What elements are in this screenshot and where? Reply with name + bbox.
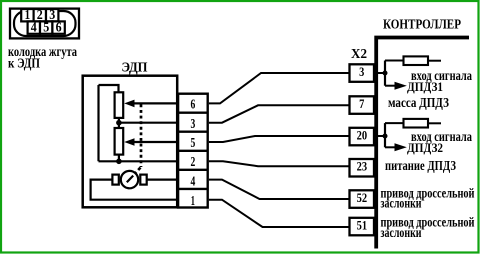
motor brush right — [140, 175, 146, 185]
svg-text:4: 4 — [31, 20, 37, 35]
potentiometer R2 — [115, 128, 124, 155]
svg-text:2: 2 — [37, 7, 43, 22]
connector housing outer rect — [10, 9, 79, 39]
X2 pin box 20 — [350, 128, 375, 146]
harness wire pin3 to X2-7 — [209, 105, 350, 122]
svg-text:1: 1 — [25, 7, 31, 22]
svg-text:20: 20 — [357, 127, 368, 142]
svg-text:ДПДЗ2: ДПДЗ2 — [407, 140, 443, 155]
wire X2-3 into controller — [374, 72, 385, 74]
svg-text:к ЭДП: к ЭДП — [8, 56, 40, 71]
pin cavity 5 — [40, 21, 52, 33]
X2 pin box 52 — [350, 190, 375, 208]
wire: R1 bottom stub — [118, 118, 120, 128]
svg-text:заслонки: заслонки — [381, 195, 422, 210]
mechanical link dashed line — [140, 104, 143, 167]
pin cavity 3 — [46, 9, 58, 21]
X2 pin box 7 — [350, 96, 375, 114]
wire from resistor 1 — [428, 60, 441, 62]
svg-text:4: 4 — [191, 174, 196, 189]
wire: R2 bottom stub — [118, 155, 120, 162]
wire to resistor 2 — [385, 122, 404, 124]
controller boundary line — [376, 38, 469, 249]
svg-text:заслонки: заслонки — [381, 225, 422, 240]
X2 pin box 23 — [350, 159, 375, 177]
harness wire pin1 to X2-51 — [209, 200, 350, 227]
harness wire pin5 to X2-20 — [209, 136, 350, 142]
svg-text:5: 5 — [43, 20, 49, 35]
svg-text:6: 6 — [56, 20, 62, 35]
harness wire pin2 to X2-23 — [209, 161, 350, 166]
resistor 1 — [404, 56, 429, 65]
svg-text:X2: X2 — [351, 47, 367, 62]
pin cavity 1 — [21, 9, 33, 21]
X2 pin box 51 — [350, 218, 375, 236]
wire from resistor 2 — [428, 122, 441, 124]
pin box dividers — [178, 111, 208, 113]
svg-text:6: 6 — [191, 97, 196, 112]
wire: top link to R1 — [99, 85, 119, 92]
wiper arrow 1 to pin 6 — [133, 102, 177, 104]
wire: motor right to pin 4 — [147, 179, 177, 181]
signal arrow DPDZ2 — [385, 146, 397, 148]
pin cavity 6 — [52, 21, 64, 33]
svg-text:5: 5 — [191, 135, 196, 150]
resistor 2 — [404, 119, 429, 128]
motor brush left — [112, 175, 118, 185]
wire to resistor 1 — [385, 60, 404, 62]
harness wire pin4 to X2-52 — [209, 180, 350, 199]
wire: bottom rail to pin 2 — [99, 160, 178, 162]
svg-text:51: 51 — [357, 217, 368, 232]
svg-text:ЭДП: ЭДП — [122, 60, 148, 75]
potentiometer R1 — [115, 92, 124, 118]
svg-text:2: 2 — [191, 154, 196, 169]
junction dot pin 3 — [383, 71, 388, 76]
wire: motor left to pin 1 — [91, 180, 177, 200]
svg-text:КОНТРОЛЛЕР: КОНТРОЛЛЕР — [383, 18, 461, 33]
svg-text:7: 7 — [359, 96, 365, 111]
motor M1 circle — [121, 171, 138, 188]
junction vertical at pin 20 — [384, 123, 386, 147]
junction dot pin 20 — [383, 134, 388, 139]
pin cavity 2 — [34, 9, 46, 21]
wire: junction R1R2 to pin 3 — [119, 122, 177, 124]
wire X2-20 into controller — [374, 135, 385, 137]
svg-text:питание ДПДЗ: питание ДПДЗ — [385, 158, 456, 173]
svg-text:23: 23 — [357, 159, 368, 174]
pin cavity 4 — [28, 21, 40, 33]
EDP block box — [83, 76, 178, 208]
svg-text:1: 1 — [191, 193, 195, 208]
svg-text:3: 3 — [191, 116, 196, 131]
svg-text:52: 52 — [357, 190, 368, 205]
svg-text:ДПДЗ1: ДПДЗ1 — [407, 79, 443, 94]
signal arrow DPDZ1 — [385, 85, 397, 87]
svg-text:масса ДПДЗ: масса ДПДЗ — [388, 95, 449, 110]
connector housing stadium — [14, 11, 76, 36]
wire: left branch vertical — [97, 85, 99, 161]
motor rotor slash — [127, 176, 133, 183]
junction dot R1/R2 — [116, 120, 122, 126]
EDP connector pin column outline — [178, 94, 208, 208]
X2 pin box 3 — [350, 64, 375, 82]
harness wire pin6 to X2-3 — [209, 73, 350, 103]
junction dot R2 bottom — [116, 159, 122, 165]
junction vertical at pin 3 — [384, 61, 386, 86]
svg-text:3: 3 — [359, 64, 365, 79]
svg-text:3: 3 — [49, 7, 55, 22]
wiper arrow 2 to pin 5 — [133, 141, 177, 143]
